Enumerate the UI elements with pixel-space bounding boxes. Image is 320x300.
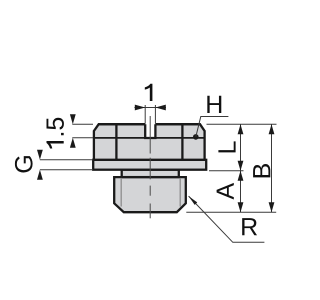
flange xyxy=(93,160,206,170)
bottom arrow pointing up xyxy=(37,170,43,180)
dimension A xyxy=(238,171,244,213)
head top edge over slot region redraw xyxy=(99,123,146,125)
top arrow up xyxy=(238,124,244,134)
thread minor diameter line right xyxy=(179,178,181,207)
dimension G (flange thickness) xyxy=(37,150,93,180)
dimension text G xyxy=(15,156,33,172)
label H xyxy=(207,96,221,113)
leader R xyxy=(189,196,265,242)
right arrow pointing left xyxy=(155,105,165,111)
dimension text 1 xyxy=(145,84,153,101)
hex flat line right xyxy=(181,124,183,160)
dimension text A xyxy=(217,183,234,200)
leader H xyxy=(193,117,228,140)
label R xyxy=(242,218,257,235)
threaded body xyxy=(114,177,186,212)
middle extension line xyxy=(209,170,244,172)
screw slot xyxy=(145,123,155,138)
top extension line xyxy=(207,123,277,125)
hex crown chamfer line xyxy=(94,137,205,139)
bottom arrow pointing up xyxy=(70,138,76,148)
dimension 1.5 (head chamfer depth) xyxy=(70,114,93,148)
center line xyxy=(149,116,151,218)
neck (thread undercut) xyxy=(122,170,179,177)
dimension text L xyxy=(218,141,235,152)
extension line top xyxy=(72,123,93,125)
dimension line xyxy=(134,107,166,109)
extension line slot right xyxy=(154,105,156,124)
extension line bottom xyxy=(40,169,93,171)
dimension B xyxy=(269,124,275,212)
hex head xyxy=(94,124,205,160)
dimension L xyxy=(238,124,244,170)
bottom arrow down xyxy=(269,202,275,212)
top arrow up xyxy=(238,171,244,181)
bottom arrow down xyxy=(238,202,244,212)
left arrow pointing right xyxy=(135,105,145,111)
extension line slot left xyxy=(144,105,146,124)
top arrow pointing down xyxy=(37,150,43,160)
extension line bottom xyxy=(72,137,93,139)
bottom arrow down xyxy=(238,161,244,171)
thread minor diameter line left xyxy=(120,178,122,207)
extension line top xyxy=(40,159,93,161)
dimension text 1.5 xyxy=(47,118,64,149)
bottom extension line xyxy=(186,211,276,213)
top arrow up xyxy=(269,124,275,134)
right side extension lines xyxy=(186,124,276,212)
hex flat line left xyxy=(115,124,117,160)
dimension 1 (slot width) xyxy=(134,105,166,124)
part body group xyxy=(93,124,206,212)
top arrow pointing down xyxy=(70,114,76,124)
dimension text B xyxy=(253,164,270,177)
